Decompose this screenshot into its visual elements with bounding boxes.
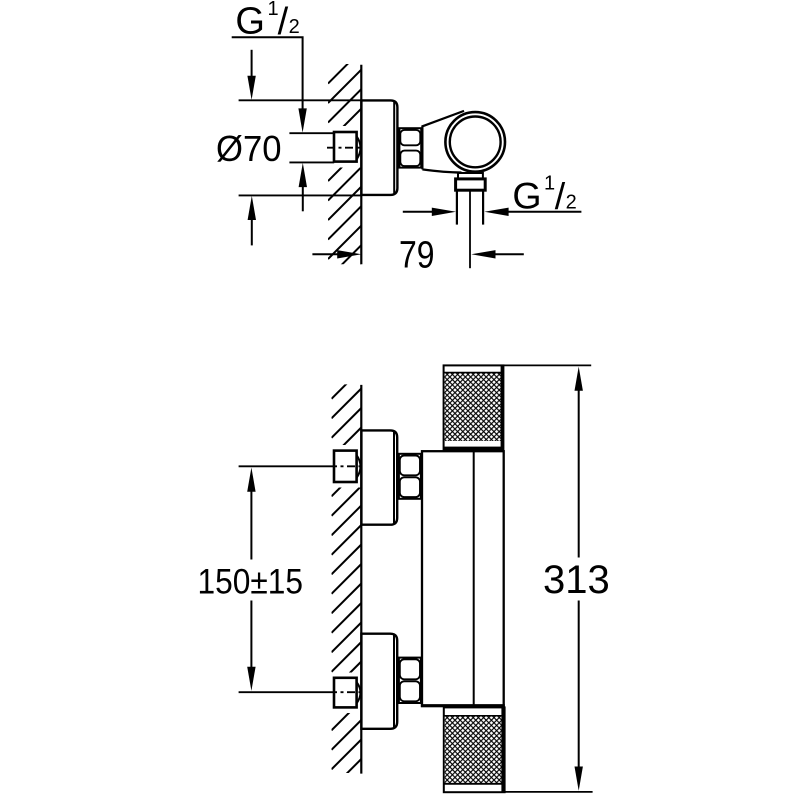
body face line: [473, 451, 475, 706]
G1/2 right dimension: right arrow: [484, 208, 508, 216]
flange face line: [393, 101, 395, 195]
outlet pipe walls: [456, 190, 458, 224]
union nut end arc: [357, 137, 361, 160]
wall clearance around union nut: [326, 126, 362, 168]
svg-text:79: 79: [399, 234, 435, 276]
escutcheon flange (upper): [361, 430, 397, 524]
svg-text:Ø70: Ø70: [216, 128, 282, 169]
body bottom thick edge: [421, 704, 505, 707]
wall face line (bottom): [360, 385, 362, 774]
svg-text:2: 2: [289, 16, 300, 38]
svg-text:G: G: [512, 175, 541, 217]
hex nut (top drawing): [399, 128, 421, 167]
extension line nut top (G1/2): [289, 132, 334, 134]
wall clearance around upper union nut: [326, 445, 362, 488]
shower holder inner circle: [450, 116, 501, 167]
svg-text:/: /: [555, 175, 566, 217]
wall hatch (top): [328, 50, 362, 318]
150±15 dimension line with arrows: [247, 468, 255, 492]
wall hatch (bottom): [332, 369, 362, 800]
79 dimension: right arrow: [471, 250, 495, 258]
wall clearance around lower union nut: [326, 673, 362, 714]
extension line nut bottom (G1/2): [289, 161, 334, 163]
outlet collar: [456, 179, 486, 190]
wall union nut (square): [334, 132, 357, 162]
upper union nut (square): [334, 451, 357, 482]
svg-text:150±15: 150±15: [198, 561, 304, 601]
79 dimension: left arrow: [312, 253, 338, 255]
leader underline (top G1/2): [232, 37, 303, 108]
outlet centerline: [469, 191, 471, 268]
union nut centerline: [327, 147, 360, 149]
313 extension line bottom: [505, 791, 593, 793]
lower hex nut: [399, 658, 421, 703]
wall face line: [360, 65, 362, 264]
temperature handle (upper knurled knob): [444, 365, 504, 450]
150±15 extension line upper (solid + dash-dot through wall): [239, 465, 329, 467]
upper hex nut: [399, 454, 421, 499]
thermostat body: [422, 451, 504, 706]
Ø70 up arrow: [248, 196, 256, 220]
shower holder outer circle: [445, 112, 505, 172]
arrow up to nut bottom: [299, 163, 307, 187]
extension line flange bottom (Ø70): [239, 194, 362, 196]
escutcheon flange (lower): [361, 634, 397, 729]
outlet neck: [458, 173, 483, 179]
svg-text:2: 2: [566, 191, 577, 213]
escutcheon flange (top drawing): [361, 100, 397, 194]
313 dimension line with arrows: [575, 367, 583, 391]
leader arrowhead down to nut top: [298, 108, 306, 132]
lower union nut (square): [334, 678, 357, 708]
extension line flange top (Ø70): [239, 99, 362, 101]
svg-text:1: 1: [544, 172, 555, 194]
valve body cone: [422, 111, 464, 173]
313 extension line top: [504, 364, 592, 366]
svg-text:313: 313: [543, 558, 610, 602]
Ø70 down arrow: [251, 50, 253, 76]
G1/2 right dimension: left arrow: [403, 211, 434, 213]
150±15 extension line lower (solid + dash-dot through wall): [239, 691, 329, 693]
volume handle (lower knurled knob): [444, 707, 505, 792]
